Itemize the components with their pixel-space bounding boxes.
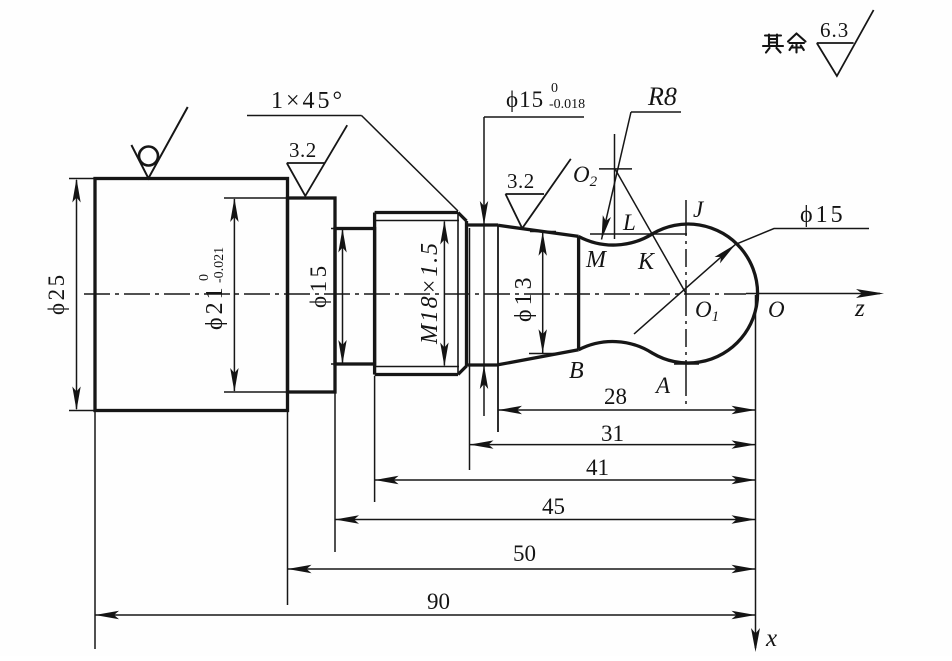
- phi25 bottom extension: [69, 410, 95, 412]
- svg-text:50: 50: [513, 541, 536, 566]
- edge line cylinder-cone, 28 extension: [497, 225, 499, 432]
- neck R8 arcs and ball outline: [579, 224, 758, 363]
- phi15 ball leader elbow: [735, 229, 869, 245]
- thread chamfer edge line: [457, 213, 459, 375]
- text phi21 tolerance rotated: [197, 247, 228, 330]
- phi21 arrows: [230, 198, 238, 392]
- dim 90 extension: [94, 411, 96, 650]
- roughness symbol machining circle on big cylinder: [131, 107, 187, 178]
- dim 45 extension: [334, 392, 336, 552]
- dim 90 line: [95, 614, 756, 616]
- dim 50 line: [288, 568, 756, 570]
- z axis: [746, 293, 880, 295]
- svg-text:ϕ15: ϕ15: [306, 262, 331, 308]
- cone section body: [498, 225, 579, 364]
- text M18x1.5 rotated: [417, 241, 443, 345]
- phi15 tol leader horizontal: [484, 116, 584, 118]
- svg-text:x: x: [765, 625, 777, 652]
- dim 31 extension: [469, 228, 471, 470]
- svg-text:L: L: [622, 210, 636, 235]
- construction line through L J: [590, 233, 687, 235]
- phi13 arrows: [539, 232, 547, 353]
- phi15 tolerance neck section body: [467, 225, 499, 365]
- svg-text:z: z: [854, 295, 865, 322]
- construction line O2 to O1: [615, 169, 686, 294]
- svg-text:O1: O1: [695, 297, 719, 325]
- R8 arrow: [597, 215, 611, 240]
- svg-text:41: 41: [586, 455, 609, 480]
- thread root lines: [375, 221, 459, 367]
- svg-text:ϕ15: ϕ15: [800, 202, 846, 228]
- phi15 tol vertical dimension line: [483, 117, 485, 416]
- phi25 arrows: [72, 179, 80, 411]
- svg-text:31: 31: [601, 421, 624, 446]
- svg-text:28: 28: [604, 384, 627, 409]
- O2 marker tick: [599, 168, 632, 170]
- dim 41 line: [375, 479, 756, 481]
- svg-text:45: 45: [542, 494, 565, 519]
- 1x45 leader diagonal: [362, 116, 459, 212]
- phi13 dimension line: [542, 232, 544, 353]
- phi21 top extension: [224, 197, 288, 199]
- svg-text:B: B: [569, 358, 584, 384]
- dim 41 extension: [374, 376, 376, 502]
- x axis vertical line at O: [755, 295, 757, 648]
- z axis arrow: [856, 289, 884, 298]
- phi15 ball leader arrow: [715, 241, 739, 263]
- groove phi15 section body: [335, 229, 375, 365]
- M18 arrows: [440, 221, 448, 367]
- R8 leader line: [602, 112, 632, 240]
- text phi13 rotated: [511, 273, 537, 322]
- svg-text:R8: R8: [647, 82, 677, 111]
- point A tick: [674, 363, 699, 365]
- O2 marker vertical: [614, 134, 616, 239]
- roughness 3.2 symbol on cone: [506, 159, 571, 228]
- phi25 dimension line: [76, 180, 78, 409]
- phi15 tol arrows outside: [480, 201, 488, 389]
- dim 45 line: [335, 519, 756, 521]
- x axis arrow: [751, 628, 760, 652]
- text phi25 rotated: [44, 272, 69, 315]
- dim 28 line: [498, 409, 756, 411]
- dim 31 line: [470, 444, 756, 446]
- groove phi15 bottom extension tick: [331, 363, 352, 365]
- svg-text:J: J: [693, 197, 705, 222]
- svg-text:0: 0: [551, 81, 558, 96]
- groove phi15 top extension tick: [331, 228, 352, 230]
- centerline part axis: [84, 293, 746, 295]
- svg-text:-0.021: -0.021: [212, 247, 227, 283]
- text qiyu chinese: [763, 34, 806, 53]
- svg-text:1×45°: 1×45°: [271, 88, 345, 114]
- svg-text:90: 90: [427, 589, 450, 614]
- svg-text:K: K: [637, 249, 656, 275]
- ball vertical axis J-A: [685, 200, 687, 404]
- svg-text:3.2: 3.2: [507, 169, 535, 193]
- svg-text:ϕ15: ϕ15: [506, 87, 544, 112]
- svg-text:O: O: [768, 297, 785, 322]
- 1x45 leader horizontal: [247, 115, 362, 117]
- svg-text:ϕ25: ϕ25: [44, 272, 69, 315]
- svg-text:M18×1.5: M18×1.5: [417, 241, 443, 345]
- phi13 extension ticks: [529, 232, 556, 354]
- svg-text:-0.018: -0.018: [549, 97, 585, 112]
- M18 dimension line: [443, 222, 445, 366]
- svg-text:O2: O2: [573, 162, 598, 190]
- svg-text:M: M: [585, 247, 608, 273]
- svg-text:ϕ13: ϕ13: [511, 273, 537, 322]
- roughness 6.3 symbol top right: [817, 10, 874, 76]
- phi15 ball leader through O1: [634, 244, 735, 334]
- groove phi15 dimension line: [342, 229, 344, 363]
- phi21 bottom extension: [224, 391, 288, 393]
- svg-text:6.3: 6.3: [820, 18, 849, 42]
- text phi15 groove rotated: [306, 262, 331, 308]
- svg-text:ϕ21: ϕ21: [202, 284, 228, 330]
- roughness 3.2 symbol on phi21: [287, 125, 347, 196]
- phi21 section body: [288, 198, 336, 392]
- dim 50 extension: [287, 411, 289, 606]
- phi21 dimension line: [233, 199, 235, 391]
- cone right face: [577, 236, 580, 349]
- groove phi15 arrows: [338, 229, 346, 365]
- svg-text:3.2: 3.2: [289, 138, 317, 162]
- thread M18 section crest outline: [375, 213, 467, 375]
- big cylinder phi25 body: [95, 179, 288, 411]
- R8 leader underline: [631, 111, 681, 113]
- phi25 top extension: [69, 178, 95, 180]
- svg-text:A: A: [654, 373, 671, 398]
- svg-text:0: 0: [197, 274, 212, 281]
